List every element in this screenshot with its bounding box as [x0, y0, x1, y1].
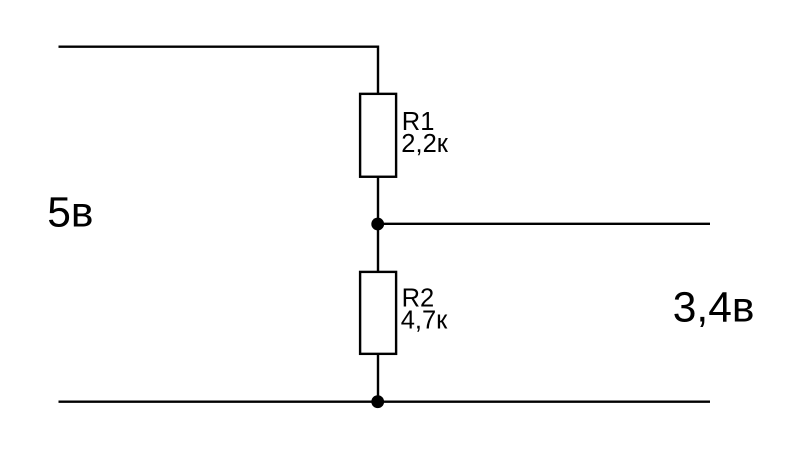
- wire top rail to R1: [59, 47, 379, 94]
- resistor R1: [360, 94, 396, 177]
- wire R1 bottom to R2 top through node A: [377, 177, 379, 272]
- node A junction dot: [371, 218, 384, 231]
- svg-text:2,2к: 2,2к: [401, 130, 448, 158]
- svg-text:4,7к: 4,7к: [401, 307, 448, 335]
- wire bottom ground rail: [59, 401, 711, 403]
- svg-text:3,4в: 3,4в: [673, 285, 755, 332]
- svg-text:5в: 5в: [47, 190, 93, 237]
- node B junction dot: [371, 395, 384, 408]
- wire R2 bottom to ground rail: [377, 354, 379, 402]
- wire node A to output tap: [378, 223, 710, 225]
- resistor R2: [360, 272, 396, 354]
